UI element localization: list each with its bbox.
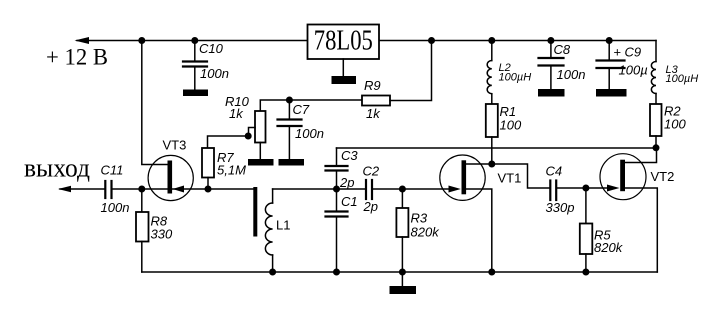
svg-text:+ 12 В: + 12 В xyxy=(46,45,108,70)
svg-text:100µH: 100µH xyxy=(666,73,699,85)
svg-text:C8: C8 xyxy=(554,42,571,57)
capacitor C4 330p xyxy=(546,164,575,216)
resistor R7 5.1M xyxy=(202,148,246,189)
wire VT1 collector to C4 xyxy=(492,164,549,188)
ferrite rod (antenna bar) xyxy=(253,187,257,237)
wire R7 to R10 tap xyxy=(208,128,256,149)
resistor R10 1k (with tap) xyxy=(225,94,266,159)
wire VT2 collector to R2 junction xyxy=(625,148,657,163)
svg-text:78L05: 78L05 xyxy=(314,25,373,57)
ground (C8) xyxy=(538,89,565,97)
junction top rail / L2 xyxy=(488,37,495,44)
svg-text:C1: C1 xyxy=(341,194,358,209)
svg-text:5,1M: 5,1M xyxy=(217,163,246,178)
resistor R5 820k xyxy=(580,188,624,272)
junction bottom rail / R3 / ground xyxy=(399,269,406,276)
junction bottom rail / C1 xyxy=(333,269,340,276)
capacitor C8 100n xyxy=(539,41,586,90)
resistor R9 1k xyxy=(362,78,390,121)
capacitor C11 100n xyxy=(101,163,130,216)
svg-text:выход: выход xyxy=(24,154,90,183)
inductor L2 100uH xyxy=(487,41,531,105)
svg-text:100µ: 100µ xyxy=(619,63,648,78)
capacitor C3 2p xyxy=(326,148,359,190)
svg-text:1k: 1k xyxy=(366,106,381,121)
transistor VT3 xyxy=(148,138,193,201)
junction C7 top xyxy=(286,97,293,104)
junction top rail / C8 xyxy=(547,37,554,44)
svg-text:100n: 100n xyxy=(200,66,229,81)
resistor R3 820k xyxy=(396,189,440,272)
resistor R8 330 xyxy=(136,189,173,272)
ground (C9) xyxy=(596,89,627,97)
junction bottom rail / R5 xyxy=(582,269,589,276)
wire C3 junction to C2 xyxy=(337,188,365,190)
wire L1 top to C3 junction xyxy=(273,188,337,190)
junction C3 / C1 / main wire xyxy=(333,186,340,193)
ground (C10) xyxy=(183,90,208,97)
svg-text:VT1: VT1 xyxy=(498,171,522,186)
ground (C7) xyxy=(279,159,305,166)
svg-text:R9: R9 xyxy=(364,78,381,93)
junction R3 top xyxy=(399,186,406,193)
svg-text:C9: C9 xyxy=(625,45,642,60)
wire ground stub bottom xyxy=(401,272,403,286)
resistor R1 100 xyxy=(486,104,522,164)
svg-text:100n: 100n xyxy=(295,126,324,141)
junction C4 / R5 / VT2 xyxy=(582,185,589,192)
wire bottom rail xyxy=(142,271,658,273)
svg-text:1k: 1k xyxy=(229,106,244,121)
wire VT1 collector to junction xyxy=(466,163,492,165)
svg-text:820k: 820k xyxy=(594,240,624,255)
svg-text:2p: 2p xyxy=(363,199,378,214)
svg-text:C2: C2 xyxy=(363,164,380,179)
junction VT1 collector / R1 xyxy=(488,161,495,168)
svg-text:330: 330 xyxy=(151,227,173,242)
junction C11 / R8 xyxy=(138,186,145,193)
svg-text:820k: 820k xyxy=(411,225,441,240)
svg-text:C7: C7 xyxy=(293,102,310,117)
wire C3 top to R2 bottom (long feedback wire) xyxy=(337,147,657,149)
transistor VT1 xyxy=(440,155,522,200)
node output label xyxy=(24,154,90,183)
junction top rail / C10 xyxy=(191,37,198,44)
ground (bottom rail) xyxy=(390,286,417,294)
wire top rail to VT3 collector xyxy=(142,41,168,165)
svg-text:100: 100 xyxy=(664,117,686,132)
wire output to C11 xyxy=(60,188,104,190)
wire R10 top to R9 xyxy=(260,100,362,111)
capacitor C2 2p xyxy=(363,164,380,215)
svg-text:C4: C4 xyxy=(546,164,563,179)
svg-text:2p: 2p xyxy=(339,175,354,190)
output arrow xyxy=(58,186,71,192)
inductor L1 xyxy=(265,189,290,272)
capacitor C9 100u (polarized) xyxy=(597,41,648,90)
node +12V label xyxy=(46,45,108,70)
wire R5 junction to VT2 with arrow xyxy=(586,187,607,189)
wire C2 to R3 junction xyxy=(373,188,402,190)
junction top rail / C9 xyxy=(606,37,613,44)
svg-text:100n: 100n xyxy=(557,67,586,82)
svg-text:VT2: VT2 xyxy=(651,169,675,184)
wire top rail right segment xyxy=(379,40,656,42)
svg-text:+: + xyxy=(614,45,622,60)
svg-text:330p: 330p xyxy=(546,200,575,215)
wire C4 to R5 junction xyxy=(557,187,586,189)
wire C11 to VT3 / R7 junction xyxy=(113,188,254,190)
resistor R2 100 xyxy=(650,104,686,148)
wire VT2 emitter to bottom rail xyxy=(625,188,657,272)
svg-text:C10: C10 xyxy=(199,41,224,56)
junction top rail / R9 branch xyxy=(428,37,435,44)
svg-text:C3: C3 xyxy=(341,148,358,163)
svg-text:VT3: VT3 xyxy=(163,138,187,153)
wire VT1 emitter to bottom rail xyxy=(466,189,492,272)
junction top rail / VT3 branch xyxy=(138,37,145,44)
junction R10 tap xyxy=(245,133,252,140)
svg-text:L1: L1 xyxy=(276,218,290,233)
wire top rail left segment xyxy=(77,40,308,42)
wire R9 to top rail xyxy=(390,41,432,101)
inductor L3 100uH xyxy=(651,41,698,105)
capacitor C1 xyxy=(326,189,358,272)
junction bottom rail / VT1 emitter xyxy=(488,269,495,276)
junction R7 bottom xyxy=(205,186,212,193)
svg-text:100µH: 100µH xyxy=(499,72,532,84)
transistor VT2 xyxy=(600,154,674,200)
ground (78L05) xyxy=(332,76,357,84)
junction bottom rail / L1 xyxy=(269,269,276,276)
capacitor C7 100n xyxy=(278,100,324,159)
regulator U1 78L05 xyxy=(308,25,380,77)
svg-text:C11: C11 xyxy=(101,163,124,178)
wire R3 junction to VT1 with arrow xyxy=(402,188,449,190)
ground (R10) xyxy=(248,159,274,166)
svg-text:100: 100 xyxy=(500,118,522,133)
svg-text:100n: 100n xyxy=(101,200,130,215)
junction R2 bottom / VT2 collector xyxy=(653,144,660,151)
svg-text:R3: R3 xyxy=(411,211,428,226)
capacitor C10 xyxy=(183,41,229,90)
+12V input arrow xyxy=(75,37,90,44)
